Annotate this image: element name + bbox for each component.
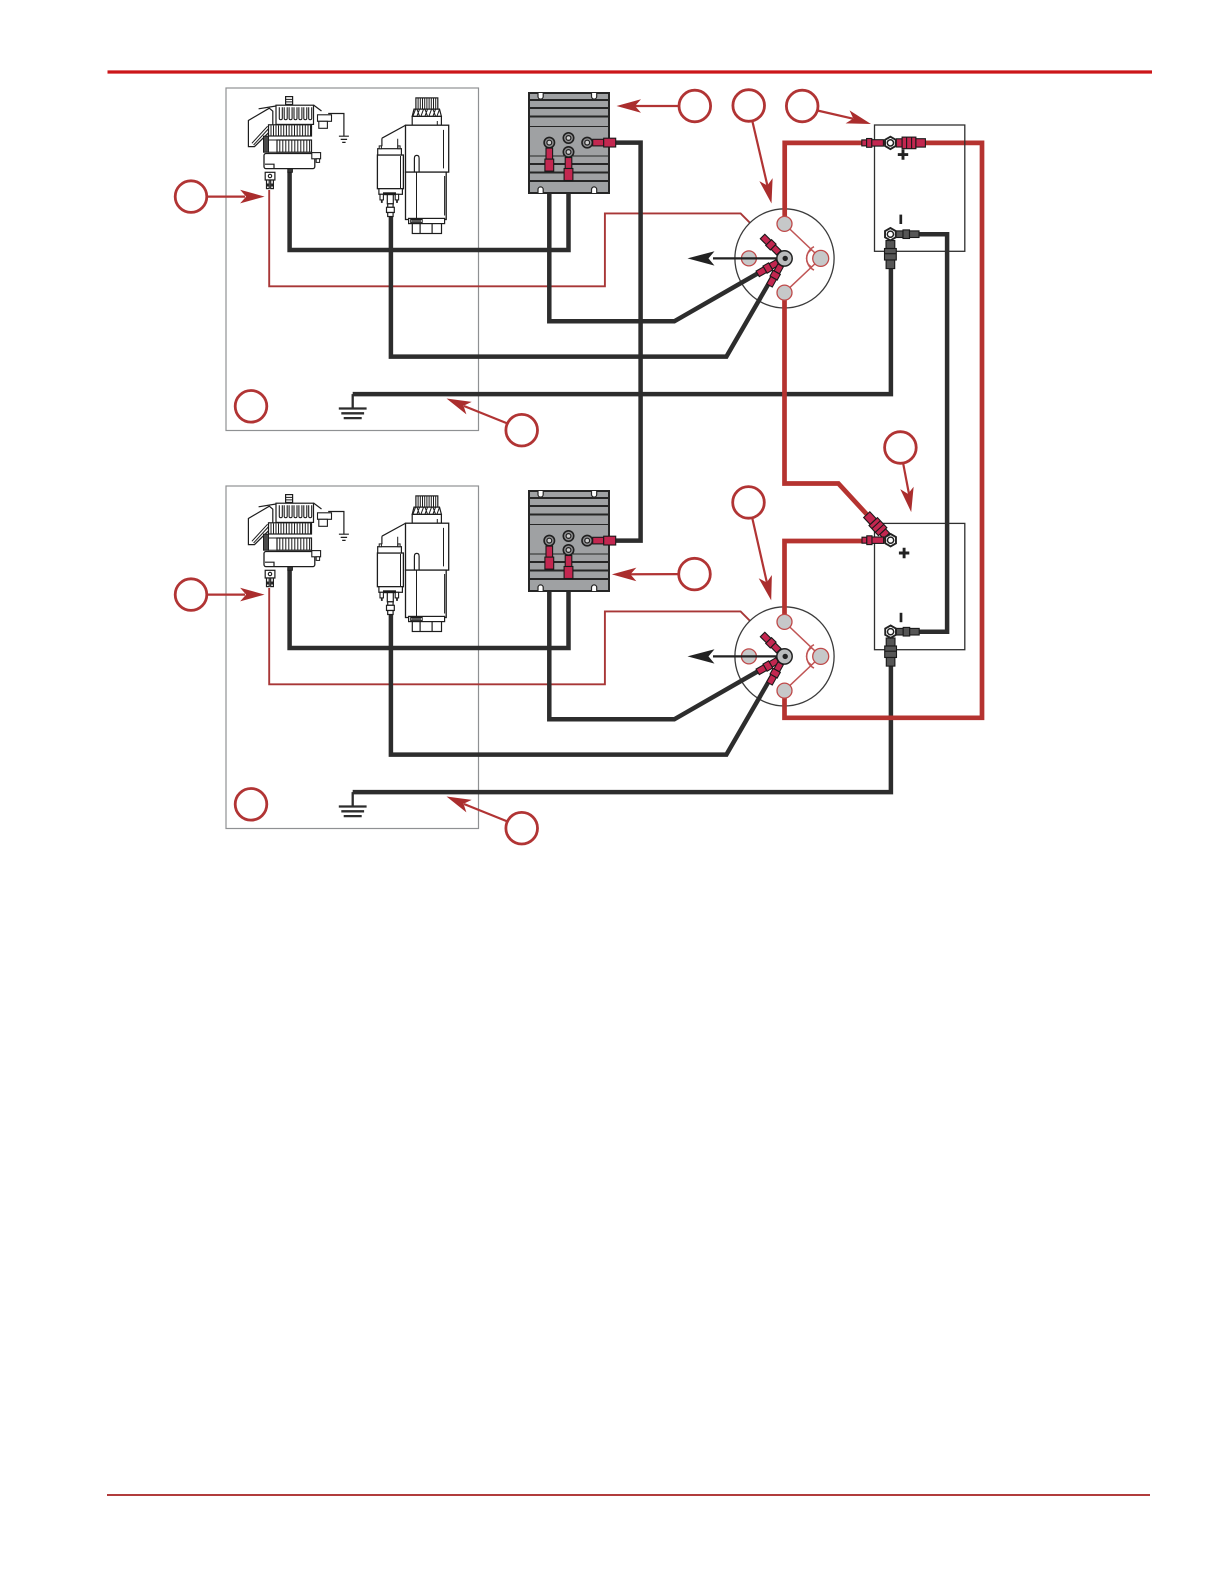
wire: black regulator 1 right terminal down to regulator 2 right terminal	[594, 143, 641, 541]
callout circle: engine 2 (plain)	[235, 789, 267, 821]
wire: black starter 2 cable to switch 2 hub	[391, 614, 782, 755]
switch 2 crimp terminals at hub	[756, 632, 785, 686]
alternator (engine 2)	[248, 495, 331, 587]
battery 2 negative ring nut	[885, 626, 896, 638]
callout circle: regulator 2	[612, 558, 710, 590]
alternator 2 small ground	[328, 512, 349, 541]
battery 1 positive ring nut	[885, 137, 896, 149]
battery 2 positive ring nut	[885, 534, 896, 546]
callout circle: switch 1	[733, 90, 778, 205]
callout circle: alternator 1 terminal	[175, 181, 264, 213]
callout circle: alternator 2 terminal	[175, 579, 264, 611]
callout circle: battery 2	[885, 432, 918, 514]
voltage regulator 2	[529, 491, 609, 591]
engine 1 outline box	[226, 88, 479, 431]
bottom red page rule	[107, 1494, 1150, 1496]
engine 1 ground symbol	[339, 394, 367, 418]
battery 1 negative terminal sleeves	[885, 230, 920, 269]
callout circle: switch 2	[733, 487, 778, 602]
wire: red switch 2 top post up to battery 2 positive	[785, 541, 888, 624]
callout circle: battery 1	[786, 90, 873, 130]
battery 1 positive terminal sleeves	[862, 137, 926, 149]
battery switch 2 body	[735, 607, 834, 706]
wire: black engine 2 ground to battery 2 negative	[353, 664, 891, 792]
battery 2 negative terminal sleeves	[885, 627, 920, 666]
wire: black regulator 1 left terminal to switch 1 hub	[549, 168, 782, 321]
switch 2 posts and hub	[713, 614, 829, 698]
callout circle: engine 2 ground wire	[444, 790, 538, 844]
switch 1 posts and hub	[713, 216, 829, 300]
starter motor (engine 1)	[377, 98, 448, 234]
battery 1 negative ring nut	[885, 228, 896, 240]
switch 1 crimp terminals at hub	[756, 234, 785, 288]
battery 2 positive terminal sleeves	[862, 511, 891, 545]
battery switch 1 body	[735, 209, 834, 308]
battery 2 box	[875, 523, 965, 649]
switch 1 black arrow head	[688, 251, 715, 265]
wire: black negative jumper battery 1 to battery 2	[896, 234, 947, 632]
wire: red battery 1 positive loop switch1-top battery1 right-side down to switch 2 bottom	[785, 143, 983, 718]
wire: thin red excite wire alternator 2 to switch 2	[269, 588, 781, 684]
wire: black alternator 1 output to regulator 1	[290, 172, 569, 251]
engine 2 outline box	[226, 486, 479, 829]
wire: black engine 1 ground to battery 1 negative	[353, 266, 891, 394]
wire: black regulator 2 left terminal to switch 2 hub	[549, 566, 782, 719]
wire: red switch 1 bottom post down to battery 2 positive	[785, 291, 891, 541]
wire: thin red excite wire alternator 1 to switch 1	[269, 190, 781, 286]
battery 1 box	[875, 125, 965, 251]
starter motor (engine 2)	[377, 496, 448, 632]
wire: black starter 1 cable to switch 1 hub	[391, 216, 782, 357]
alternator 1 small ground	[328, 114, 349, 143]
regulator 1 crimp sleeves	[545, 138, 616, 180]
wire: black alternator 2 output to regulator 2	[290, 570, 569, 649]
regulator 2 crimp sleeves	[545, 536, 616, 578]
switch 2 black arrow head	[688, 649, 715, 663]
callout circle: regulator 1	[617, 90, 711, 122]
top red page rule	[108, 70, 1153, 73]
engine 2 ground symbol	[339, 792, 367, 816]
alternator (engine 1)	[248, 97, 331, 189]
callout circle: engine 1 ground wire	[444, 392, 538, 446]
callout circle: engine 1 (plain)	[235, 391, 267, 423]
voltage regulator 1	[529, 93, 609, 193]
